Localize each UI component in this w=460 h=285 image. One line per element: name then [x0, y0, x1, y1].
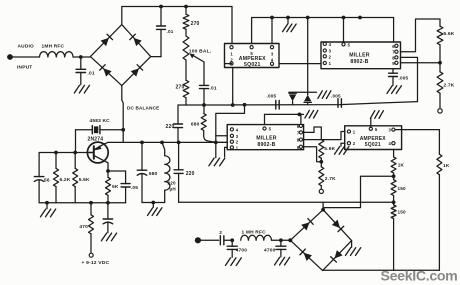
svg-text:4583 KC: 4583 KC [90, 118, 111, 124]
svg-text:.005: .005 [399, 76, 409, 81]
svg-text:150: 150 [398, 210, 407, 215]
svg-text:5Q021: 5Q021 [365, 142, 381, 148]
svg-text:220: 220 [166, 124, 175, 130]
svg-text:680: 680 [191, 122, 200, 128]
svg-text:100 BAL.: 100 BAL. [189, 49, 212, 55]
svg-text:2.7K: 2.7K [325, 176, 336, 182]
svg-text:5Q021: 5Q021 [244, 62, 261, 68]
svg-text:5.6K: 5.6K [79, 177, 90, 183]
svg-text:56: 56 [44, 178, 50, 184]
svg-text:DC BALANCE: DC BALANCE [127, 106, 159, 111]
svg-text:8902-B: 8902-B [257, 142, 275, 148]
svg-text:AUDIO: AUDIO [18, 44, 35, 50]
svg-text:220: 220 [186, 171, 195, 177]
svg-text:.005: .005 [331, 94, 341, 99]
svg-text:MILLER: MILLER [349, 52, 370, 58]
svg-text:+ 9-12 VDC: + 9-12 VDC [82, 260, 110, 266]
svg-text:4700: 4700 [264, 248, 276, 254]
svg-text:220: 220 [168, 181, 177, 186]
svg-text:MILLER: MILLER [256, 136, 277, 142]
svg-text:SeekIC.com: SeekIC.com [381, 269, 458, 285]
svg-text:.01: .01 [88, 71, 95, 77]
svg-text:1MH RFC: 1MH RFC [42, 44, 65, 50]
svg-text:270: 270 [176, 85, 185, 91]
svg-text:AMPEREX: AMPEREX [239, 56, 266, 62]
svg-text:270: 270 [191, 21, 200, 27]
svg-text:2.7K: 2.7K [444, 83, 455, 89]
svg-text:.005: .005 [267, 94, 277, 99]
svg-text:.01: .01 [167, 29, 174, 34]
svg-text:.01: .01 [210, 86, 217, 92]
svg-text:µH: µH [170, 187, 177, 192]
svg-text:1 MH RFC: 1 MH RFC [242, 230, 267, 236]
svg-text:8902-B: 8902-B [350, 59, 368, 65]
svg-text:680: 680 [149, 171, 158, 177]
svg-text:5K: 5K [112, 184, 119, 190]
svg-text:5.6K: 5.6K [324, 146, 335, 152]
svg-text:4700: 4700 [236, 248, 248, 254]
svg-text:5.6K: 5.6K [444, 31, 455, 37]
svg-text:.05: .05 [131, 185, 138, 191]
svg-text:470: 470 [79, 224, 88, 230]
svg-text:6.2K: 6.2K [60, 177, 71, 183]
svg-text:2: 2 [219, 230, 222, 236]
svg-text:150: 150 [398, 186, 407, 191]
svg-text:INPUT: INPUT [17, 65, 32, 71]
svg-text:1K: 1K [443, 163, 450, 169]
svg-text:1K: 1K [398, 163, 405, 168]
